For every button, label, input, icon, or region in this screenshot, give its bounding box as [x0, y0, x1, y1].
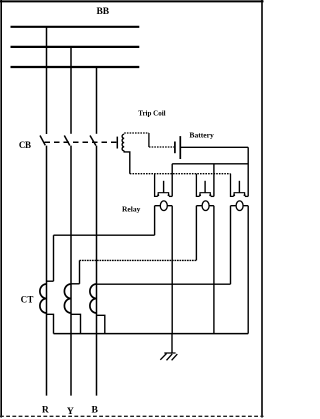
svg-text:B: B [91, 405, 98, 416]
relay contact 2 seat dots [199, 194, 201, 196]
svg-text:Battery: Battery [189, 130, 214, 139]
wire feeder drop to contact 1 [171, 164, 173, 197]
circuit breaker blade B [90, 136, 96, 146]
relay contact 3 left terminal [231, 174, 234, 197]
CT 2 winding [64, 284, 71, 313]
relay coil 3 left wire down [230, 206, 232, 285]
relay coil 1 left wire down [154, 206, 156, 236]
wire CT1 bottom tap [47, 314, 54, 333]
wire relay 2 to CT2 (dotted) [80, 259, 197, 261]
relay contact 2 left terminal [196, 174, 199, 197]
wire ground drop [171, 334, 173, 353]
busbar 1 [11, 26, 140, 28]
relay contact 2 bridge bar [200, 193, 210, 195]
relay contact 2 right foot [211, 195, 214, 197]
relay contact 3 stem [238, 181, 240, 193]
relay contact 1 right foot [169, 195, 172, 197]
relay coil 3 leads [231, 205, 249, 207]
relay coil 3 right wire down to bus [247, 206, 249, 334]
svg-text:BB: BB [96, 7, 109, 17]
wire trip coil bottom to relay bus [124, 151, 130, 174]
relay contact 1 stem [163, 181, 165, 193]
svg-text:Relay: Relay [122, 204, 141, 213]
wire phase B upper (bus3 to CB) [96, 67, 98, 134]
relay trip bus (dotted) [130, 173, 231, 175]
relay coil 3 circle [236, 201, 243, 211]
wire CT2 bottom tap [71, 314, 81, 333]
busbar 3 [11, 66, 140, 68]
ground [160, 353, 177, 360]
wire phase Y lower (CB to bottom) [70, 146, 72, 396]
circuit breaker blade R [40, 136, 45, 146]
relay coil 2 left wire down [195, 206, 197, 261]
wire battery positive to right drop [180, 146, 248, 148]
star point bus at bottom [54, 333, 249, 335]
svg-text:CT: CT [21, 294, 34, 304]
wire CT2 top tap [71, 283, 80, 285]
svg-text:R: R [42, 405, 50, 416]
relay contact 3 seat dots [233, 194, 235, 196]
relay coil 2 right wire down to bus [213, 206, 215, 334]
page border left [0, 0, 2, 418]
relay contact 2 stem [204, 181, 206, 193]
wire phase Y upper (bus2 to CB) [70, 47, 72, 134]
wire phase R upper (bus1 to CB) [46, 27, 48, 134]
relay contact 3 bridge bar [234, 193, 245, 195]
relay contact 1 bridge bar [158, 193, 168, 195]
relay contact 3 right foot [245, 195, 248, 197]
CB linkage dashed line [45, 141, 117, 143]
battery negative plate (short) [174, 142, 176, 154]
battery positive plate (long) [179, 136, 181, 159]
wire horizontal feeder at y164 [172, 163, 248, 165]
wire CT1 secondary top drop [53, 235, 55, 281]
svg-text:CB: CB [19, 140, 31, 150]
relay contact 1 left terminal [155, 174, 158, 197]
CT 1 winding [40, 284, 47, 313]
wire drop to battery level [148, 133, 150, 147]
wire trip coil top to drop (dotted) [124, 132, 149, 134]
wire CT2 secondary top drop [79, 260, 81, 283]
svg-text:Trip Coil: Trip Coil [138, 109, 165, 117]
page border top [0, 0, 264, 2]
svg-text:Y: Y [67, 406, 74, 417]
trip coil armature bar [116, 137, 118, 149]
wire relay 3 to CT3 tap [97, 283, 231, 285]
relay coil 1 circle [160, 201, 167, 211]
wire feeder drop to contact 2 [213, 164, 215, 197]
page border bottom (dashed) [0, 415, 264, 417]
wire relay 1 to CT1 [54, 234, 155, 236]
wire to battery negative (dotted) [149, 146, 174, 148]
trip coil winding [122, 134, 124, 151]
relay contact 1 seat dots [157, 194, 159, 196]
relay coil 2 circle [202, 201, 209, 211]
circuit breaker blade Y [64, 136, 70, 146]
page border right [261, 0, 263, 418]
relay coil 1 leads [155, 205, 173, 207]
busbar 2 [11, 46, 140, 48]
relay coil 1 right wire down to bus [171, 206, 173, 334]
CT 3 winding [90, 284, 97, 313]
relay coil 2 leads [196, 205, 214, 207]
wire CT3 bottom tap [97, 315, 105, 333]
wire CT1 top tap [47, 280, 54, 282]
wire right drop down to contact 3 [247, 147, 249, 196]
wire phase B lower (CB to bottom) [96, 146, 98, 396]
wire phase R lower (CB to bottom) [46, 146, 48, 396]
